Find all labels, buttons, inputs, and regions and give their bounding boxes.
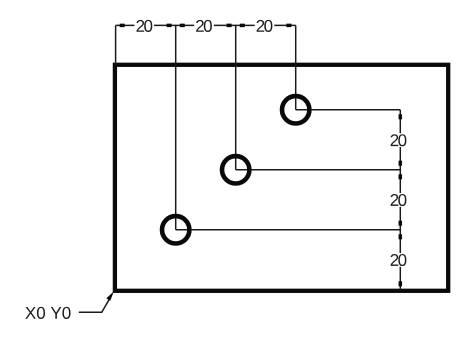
- hole C bottom-left circle: [162, 216, 189, 243]
- horizontal center line hole B to right dim: [236, 169, 401, 171]
- origin label X0 Y0: [25, 307, 70, 319]
- center line hole C (x=175.7 from dim line to hole center): [175, 25, 177, 229]
- right dimension labels: [391, 134, 407, 146]
- tick dots on right dimension: [399, 114, 403, 286]
- right dimension line x=400.3 with gaps at labels: [399, 110, 401, 291]
- plate outline rectangle: [115, 65, 448, 291]
- leader arrowhead at plate corner: [106, 291, 114, 301]
- leader line from label to plate corner: [79, 295, 112, 312]
- horizontal center line hole C to right dim: [176, 229, 401, 231]
- hole A top-right circle: [282, 96, 309, 123]
- top dimension labels: [137, 20, 153, 32]
- center line hole A (x=295.7): [295, 25, 297, 109]
- center line hole B (x=235.7): [235, 25, 237, 169]
- extension line left (x=115.6 from dim line to plate top): [115, 25, 117, 64]
- tick dots on top dimension: [120, 24, 292, 28]
- horizontal center line hole A to right dim: [296, 109, 401, 111]
- top dimension line y=25.4 with gaps at labels: [116, 24, 296, 26]
- hole B middle circle: [222, 156, 249, 183]
